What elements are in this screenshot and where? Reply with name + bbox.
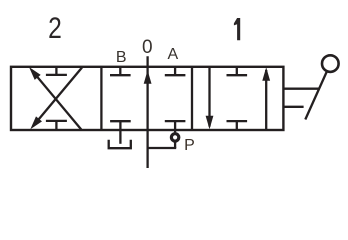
position 1: upward flow arrow (262, 67, 270, 130)
position 1: blocked port top (T symbol) (227, 67, 248, 75)
label port B (116, 50, 127, 66)
position 0: blocked tank-side port (T symbol, bottom left) (110, 121, 131, 130)
label port A (167, 47, 178, 63)
position 2: crossed flow path arrow (up-left) (29, 67, 81, 130)
tank symbol (reservoir) (109, 130, 131, 148)
position 1: blocked port bottom (T symbol) (227, 121, 248, 130)
label port P (184, 138, 195, 154)
position 2: blocked port top (T symbol) (46, 67, 67, 75)
centre flow line from P with up arrow (144, 56, 152, 168)
position 0: blocked P-side port (T symbol, bottom right) (165, 121, 186, 130)
port B blocked symbol (T) (110, 67, 131, 75)
position divider left/middle (100, 67, 102, 130)
lever actuator fork lower line (283, 106, 303, 108)
label position 0 (142, 38, 153, 57)
label position 1 (234, 18, 240, 40)
label position 2 (48, 14, 62, 44)
port A blocked symbol (T) (165, 67, 186, 75)
wire: P branch to centre line (148, 147, 177, 149)
valve body: three-position envelope (11, 67, 283, 130)
position divider middle/right (191, 67, 193, 130)
lever rod (305, 71, 327, 119)
position 2: blocked port bottom (T symbol) (46, 121, 67, 130)
position 1: downward flow arrow (206, 67, 214, 129)
pressure port P connection circle (171, 130, 178, 148)
position 2: crossed flow path arrow (down-left) (30, 68, 82, 130)
lever actuator fork upper line (283, 88, 319, 90)
lever knob (322, 55, 339, 72)
